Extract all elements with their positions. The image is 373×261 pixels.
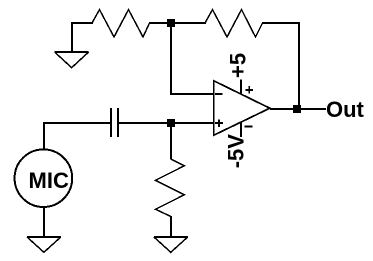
wire [262,22,300,24]
label Out [326,97,365,122]
ground [27,237,61,252]
svg-text:Out: Out [326,97,365,122]
wire [270,108,326,110]
svg-text:-5V: -5V [224,134,249,169]
label +5 [226,53,251,78]
op-amp V+ pin [241,80,253,95]
ground [154,237,188,252]
wire [298,23,300,109]
capacitor C1 [111,108,118,137]
node junction B [167,119,175,127]
node output junction [293,105,301,113]
wire [175,122,214,124]
op-amp V- pin [241,123,252,138]
wire [170,25,214,94]
wire [71,23,73,52]
wire [149,22,168,24]
resistor R1 [92,10,150,37]
wire [71,22,93,24]
wire [175,22,206,24]
resistor R2 [205,10,263,37]
ground [55,52,89,68]
resistor R3 [156,159,185,217]
wire [170,127,172,159]
op-amp non-inverting input label [215,119,223,127]
label -5V [224,134,249,169]
wire [118,122,167,124]
svg-text:+5: +5 [226,53,251,78]
wire [43,123,110,150]
microphone MIC [15,149,73,207]
op-amp inverting input label [215,93,222,95]
wire [43,207,45,237]
op-amp U1 [214,81,270,135]
node junction A [167,19,175,27]
wire [170,216,172,237]
svg-text:MIC: MIC [29,168,69,193]
